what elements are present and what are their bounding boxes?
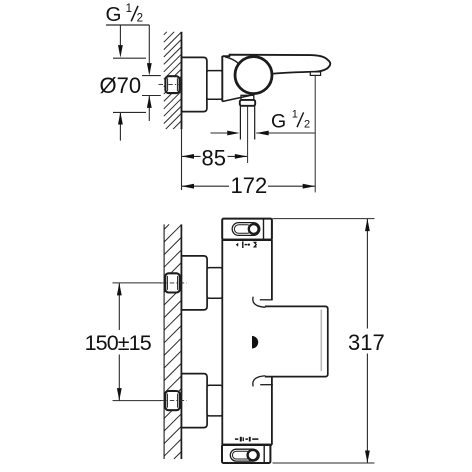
wall face line (front view) — [180, 224, 182, 459]
union nut 1 (front view) — [165, 273, 180, 292]
svg-text:172: 172 — [231, 173, 268, 198]
shower outlet adapter — [241, 95, 254, 100]
O70 extension lines — [113, 57, 146, 59]
dimension 172 — [182, 185, 316, 187]
dimension 317 line — [366, 219, 368, 463]
wall hatch (front view) — [164, 224, 181, 459]
dimension O70: leader tails — [119, 25, 121, 47]
cartridge dome circle (side view) — [235, 57, 272, 94]
wall back line (front view) — [163, 224, 165, 459]
dimension 150+-15 extension lines — [113, 282, 162, 284]
bottom hook fillet — [253, 376, 266, 387]
svg-text:Ø70: Ø70 — [100, 73, 142, 98]
shower outlet nut — [240, 100, 255, 106]
bottom knob (stadium) — [230, 449, 259, 461]
union 2 centerline (dash-dot) — [160, 400, 187, 402]
dimension 317 extension lines — [273, 218, 375, 220]
wall hatch (side view) — [164, 32, 182, 129]
spout housing box (front view) — [265, 306, 328, 376]
mixer body (front view) — [222, 240, 272, 445]
fillet between body top and cartridge circle — [225, 57, 239, 64]
svg-text:2: 2 — [304, 119, 310, 131]
spout outlet extension line — [314, 75, 316, 192]
temperature scale markings — [236, 243, 238, 247]
shower outlet pipe walls — [240, 106, 254, 140]
svg-text:85: 85 — [202, 146, 226, 171]
escutcheon 1 (front view) — [182, 256, 208, 310]
svg-text:317: 317 — [348, 330, 385, 355]
bottom knob end circle — [248, 450, 258, 460]
wall face line (side view) — [181, 32, 183, 129]
wall face extension line for 85/172 dims — [181, 129, 183, 190]
faucet body outline (side view) — [221, 56, 223, 102]
dimension G1/2 (shower outlet) line with outside arrows — [211, 132, 228, 134]
svg-text:G: G — [271, 110, 286, 132]
dimension 85 — [182, 155, 248, 157]
bottom cap block — [222, 445, 270, 463]
svg-text:G: G — [106, 3, 122, 26]
svg-text:2: 2 — [137, 12, 143, 24]
union centerline (dash-dot) — [159, 84, 185, 86]
G1/2 reference underline — [106, 24, 149, 26]
escutcheon 2 (front view) — [182, 374, 208, 428]
escutcheon flange (side view) — [182, 57, 207, 111]
spout bottom edge — [272, 72, 311, 74]
top knob end circle — [249, 224, 259, 234]
connection neck 1 (front view) — [207, 268, 222, 299]
svg-text:1: 1 — [126, 3, 132, 15]
logo mark on body — [252, 336, 258, 349]
svg-text:150±15: 150±15 — [85, 331, 152, 355]
svg-text:1: 1 — [292, 108, 298, 120]
top hook fillet — [253, 297, 266, 308]
highlight line inside spout box — [320, 310, 322, 372]
flow scale markings — [235, 438, 238, 440]
body bottom slant edge — [222, 95, 251, 101]
connection neck (side view) — [207, 71, 222, 100]
top knob (stadium) — [232, 223, 260, 236]
mousseur outlet — [310, 72, 320, 76]
connection neck 2 (front view) — [207, 385, 222, 416]
union nut 2 (front view) — [165, 391, 180, 410]
top cap block — [222, 219, 272, 240]
wall union nut (side view) — [165, 76, 179, 93]
dimension G1/2 (wall union): tails and arrows — [148, 25, 150, 65]
shower outlet axis extension — [247, 106, 249, 163]
spout nose (side view) — [311, 55, 331, 72]
union 1 centerline (dash-dot) — [160, 282, 187, 284]
dimension 150+-15 line — [118, 283, 120, 401]
